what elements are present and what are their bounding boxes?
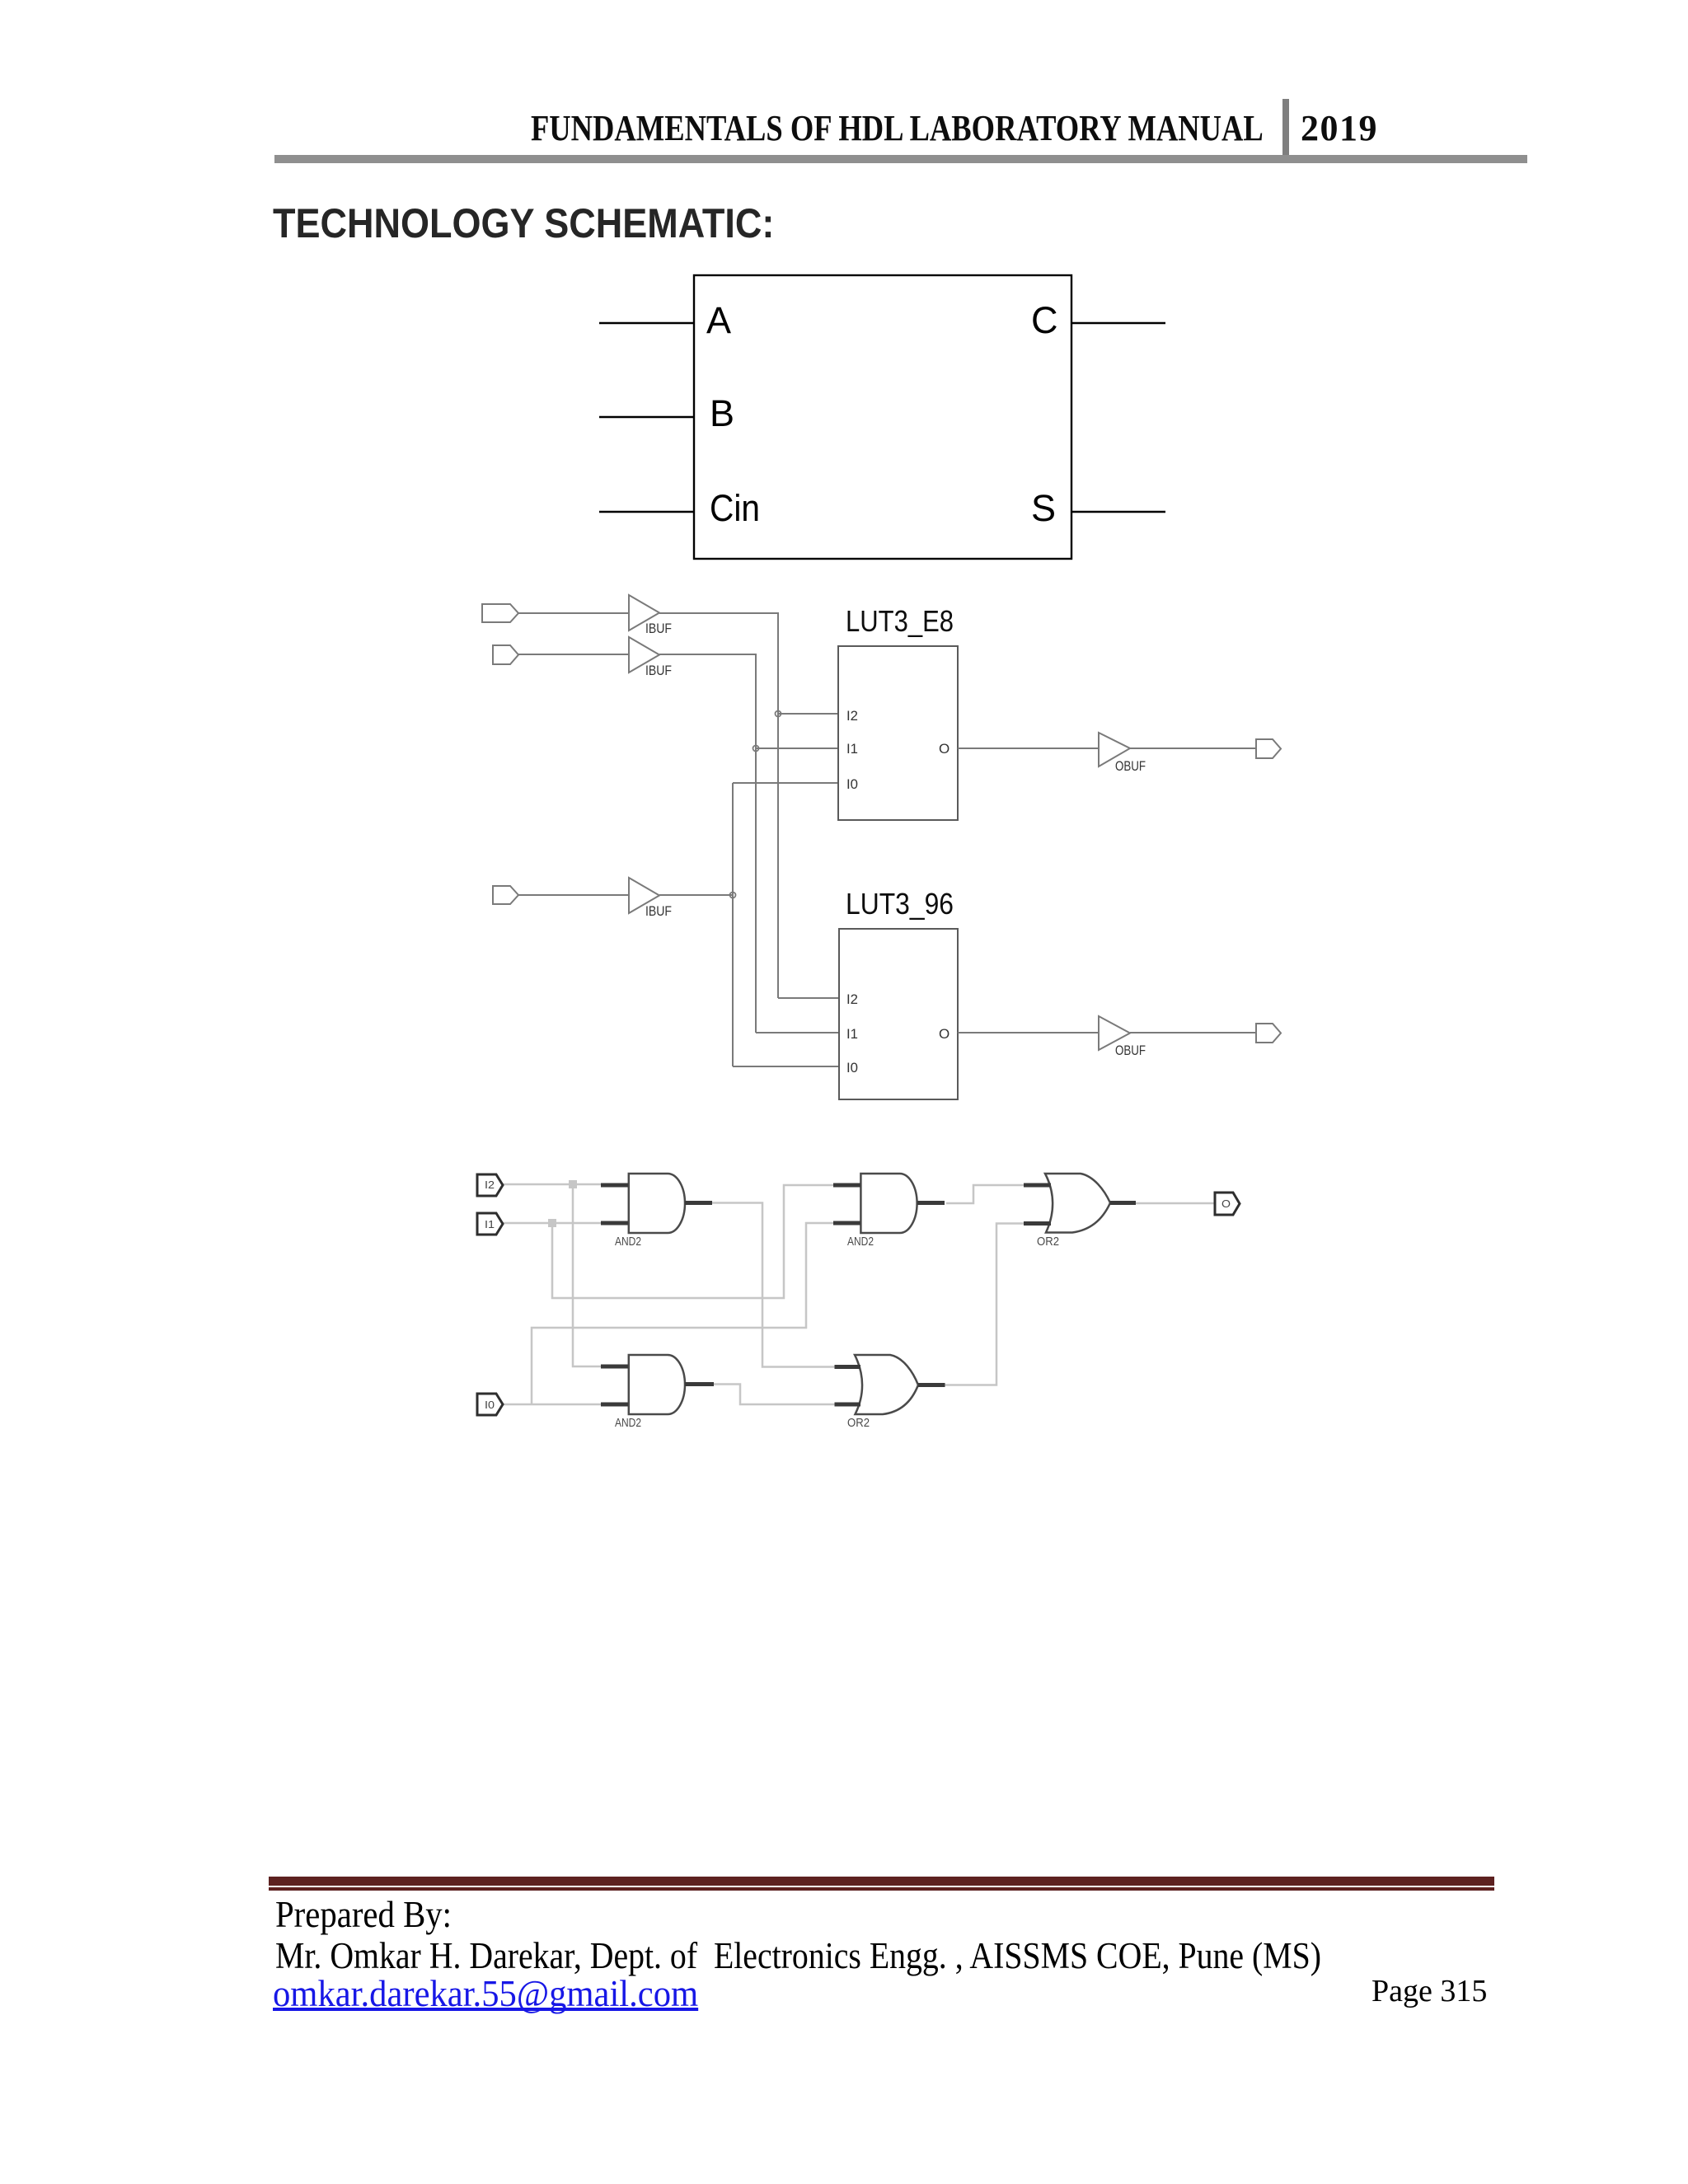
gate input port I1: [477, 1213, 503, 1235]
gate net wire OR2_2 out to OR2_1: [945, 1224, 1024, 1385]
header title text: [531, 110, 1264, 147]
OR2_2 output stub: [918, 1383, 945, 1387]
svg-text:I0: I0: [846, 776, 858, 792]
wire OBUF1 to output port 1: [1130, 748, 1256, 749]
svg-text:O: O: [939, 1026, 949, 1042]
gate AND2_2: [860, 1174, 917, 1233]
svg-text:IBUF: IBUF: [645, 903, 672, 919]
AND2_2 input stubs: [833, 1185, 860, 1223]
footer rule thin: [269, 1887, 1494, 1891]
input port 3 (to IBUF3): [493, 886, 518, 904]
svg-text:S: S: [1031, 487, 1056, 529]
svg-text:I1: I1: [485, 1219, 495, 1230]
gate net wire AND2_1 out to OR2_2: [711, 1203, 835, 1367]
input port 1 (to IBUF1): [482, 604, 518, 622]
svg-text:B: B: [710, 392, 734, 434]
junction square I1 net: [548, 1219, 556, 1227]
svg-text:I2: I2: [485, 1179, 495, 1191]
svg-text:OR2: OR2: [1037, 1235, 1059, 1249]
svg-text:O: O: [939, 741, 949, 757]
junction dot net I1: [753, 746, 759, 752]
wire output C: [1071, 322, 1165, 324]
LUT3_E8 block: [838, 646, 958, 820]
gate net wire I0: [503, 1223, 833, 1404]
wire input A: [599, 322, 694, 324]
AND2_2 output stub: [917, 1201, 945, 1205]
footer rule thick: [269, 1877, 1494, 1886]
junction square I2 net: [569, 1180, 577, 1188]
svg-text:I2: I2: [846, 708, 858, 724]
header horizontal rule: [274, 155, 1527, 163]
gate input port I2: [477, 1174, 503, 1196]
svg-text:A: A: [706, 299, 731, 341]
wire output S: [1071, 511, 1165, 513]
svg-text:OBUF: OBUF: [1115, 758, 1146, 774]
junction dot net I0: [730, 893, 736, 898]
section heading: [273, 199, 774, 247]
wire port1 to IBUF1: [518, 612, 629, 614]
gate OR2_2: [855, 1355, 918, 1414]
output port 1: [1256, 739, 1281, 758]
wire OBUF2 to output port 2: [1130, 1032, 1256, 1033]
svg-text:C: C: [1031, 299, 1058, 341]
header year text: [1301, 110, 1378, 147]
svg-text:OR2: OR2: [847, 1416, 870, 1430]
svg-text:I1: I1: [846, 1026, 858, 1042]
svg-text:LUT3_96: LUT3_96: [846, 887, 954, 921]
footer line 1: [275, 1896, 452, 1934]
svg-text:I0: I0: [846, 1060, 858, 1076]
LUT3_96 block: [839, 929, 958, 1099]
svg-text:AND2: AND2: [615, 1416, 641, 1430]
footer page number: [1371, 1975, 1487, 2008]
svg-text:IBUF: IBUF: [645, 621, 672, 636]
svg-text:Cin: Cin: [710, 487, 760, 529]
gate net wire I1: [503, 1185, 833, 1298]
block diagram box U_top: [694, 275, 1071, 559]
gate input port I0: [477, 1394, 503, 1415]
wire port3 to IBUF3: [518, 894, 629, 896]
wire input B: [599, 416, 694, 418]
gate output port O: [1215, 1193, 1240, 1215]
buffer OBUF2: [1099, 1016, 1130, 1050]
output port 2: [1256, 1024, 1281, 1043]
wire input Cin: [599, 511, 694, 513]
OR2_1 input stubs: [1024, 1185, 1051, 1224]
buffer IBUF3: [629, 878, 659, 913]
wire LUT3_E8 O to OBUF1: [958, 748, 1099, 749]
wire IBUF3 output net (to I0 pins): [659, 783, 839, 1066]
svg-text:I0: I0: [485, 1399, 495, 1411]
wire port2 to IBUF2: [518, 654, 629, 655]
buffer OBUF1: [1099, 733, 1130, 766]
AND2_3 output stub: [685, 1382, 714, 1386]
svg-text:AND2: AND2: [847, 1235, 874, 1249]
wire IBUF2 output net (to I1 pins): [659, 654, 839, 1033]
svg-text:I2: I2: [846, 991, 858, 1007]
OR2_1 output stub: [1110, 1201, 1136, 1205]
OR2_2 input stubs: [835, 1367, 861, 1405]
gate AND2_1: [629, 1174, 685, 1233]
footer line 2: [275, 1937, 1321, 1975]
gate net wire AND2_3 out to OR2_2: [713, 1385, 835, 1405]
gate net wire I2 to AND2_1: [503, 1184, 601, 1366]
wire IBUF1 output net (to I2 pins): [659, 613, 839, 998]
gate OR2_1: [1045, 1174, 1110, 1233]
AND2_3 input stubs: [601, 1366, 628, 1404]
svg-text:LUT3_E8: LUT3_E8: [846, 604, 954, 638]
wire LUT3_96 O to OBUF2: [958, 1032, 1099, 1033]
junction dot net I2: [776, 711, 781, 717]
buffer IBUF1: [629, 595, 659, 630]
buffer IBUF2: [629, 637, 659, 673]
gate AND2_3: [629, 1355, 685, 1414]
svg-text:AND2: AND2: [615, 1235, 641, 1249]
gate net wire OR2_1 out to port O: [1136, 1202, 1214, 1205]
gate net wire AND2_2 out to OR2_1: [946, 1185, 1024, 1203]
input port 2 (to IBUF2): [493, 645, 518, 664]
svg-text:I1: I1: [846, 741, 858, 757]
header vertical bar: [1282, 99, 1289, 159]
AND2_1 output stub: [685, 1201, 712, 1205]
footer email link: [273, 1975, 698, 2013]
svg-text:OBUF: OBUF: [1115, 1043, 1146, 1058]
svg-text:O: O: [1221, 1198, 1231, 1210]
svg-text:IBUF: IBUF: [645, 663, 672, 678]
AND2_1 input stubs: [601, 1185, 628, 1223]
